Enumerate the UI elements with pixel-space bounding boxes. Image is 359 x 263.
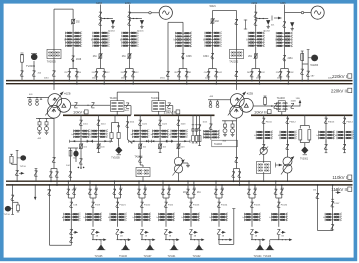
bus selector switches to 110kV buses I and II [187,181,189,198]
disconnector on left vertical [316,193,319,198]
bus selector switches to 220kV buses I and II [69,68,77,70]
disconnector [189,202,192,207]
disconnector below CT [287,140,289,150]
10kV station transformer bay with CT [210,115,212,140]
disconnector [283,22,286,27]
svg-text:F3013: F3013 [328,121,335,123]
line PT TV1105 dark triangle [100,240,102,243]
resistor element right PT bay [301,54,304,61]
disconnector on tertiary [274,103,277,108]
10kV PT bay on bus III with resistors [304,115,306,125]
CT bank on coupler vertical [66,31,82,47]
line with arrow stub [141,235,143,240]
incoming arrow at left of bay A306 [271,16,273,21]
CT bank [212,213,228,222]
CT bank [319,131,335,140]
disconnector C306 [181,53,184,59]
disconnector with arrow 110kV PT bay [15,170,18,175]
label 220kV II bus [331,88,352,93]
svg-text:1XB: 1XB [296,98,301,100]
disconnector on PT bay [20,71,23,76]
label 110kV I bus [332,175,351,180]
220kV line bay A264: feeder vertical [99,5,101,69]
junction circle on generator line 2 [301,11,303,13]
CT bank [159,213,175,222]
110kV bay loop right: verticals joined at bottom [317,185,319,231]
110kV PT bay bottom left [12,185,14,215]
bus selector switches to 220kV buses I and II [281,68,289,70]
disconnector at top [254,12,257,17]
220kV line bay A202: feeder vertical [255,5,257,69]
feeder end [98,151,100,153]
earthing switch pair beside T2 bay [245,20,247,30]
CT bank [248,31,264,47]
CT bank [256,131,272,140]
10kV feeder F3014 on bus III [344,115,346,142]
10kV PT group below T1 [36,118,54,120]
svg-text:TA1003: TA1003 [214,143,223,146]
ground of earthing transformer [183,162,188,164]
wire TA1001 to 10kV bus I [116,111,118,115]
svg-text:TV1103: TV1103 [263,256,272,258]
disconnector [158,120,161,125]
arrow mark beside disconnector [121,231,124,234]
disconnector near bus on T1 bay [52,71,55,76]
disconnector [254,20,257,25]
boxed CT TA2202 on T2 bay [230,49,244,58]
bus selector switches to 110kV buses I and II [138,181,140,198]
line side horizontal with earthing switches [129,18,142,20]
bus selector switches to 220kV buses I and II [97,68,105,70]
resistor on tertiary [264,95,267,97]
CT bank [280,131,296,140]
wire TA1003 to 10kV bus III [281,112,283,116]
arrow mark beside disconnector [255,231,258,234]
generator G2 [311,6,324,19]
disconnector [277,202,280,207]
svg-text:F1021: F1021 [120,205,127,207]
bay T2 220kV side: verticals bridged at top [212,11,214,69]
bus selector switches to 110kV buses I and II [162,181,164,198]
CT bank on right vertical of loop E [176,32,192,48]
svg-text:2201: 2201 [125,1,131,5]
breaker [178,141,180,151]
label 10kV II bus [164,110,180,115]
disconnector below CT [263,140,265,150]
boxed CT TA1003 feeding 10kV bus III [276,101,287,112]
line with arrow stub [117,235,119,240]
bus selector switches to 110kV buses I and II [67,181,69,198]
second disconnector on T1 10kV lead [91,103,94,108]
line PT TV1104 dark triangle [259,240,261,243]
svg-text:1023: 1023 [181,123,187,125]
disconnector on T1 10kV lead [74,103,77,108]
bus selector switches to 220kV buses I and II [179,68,187,70]
svg-text:TA1002: TA1002 [151,97,160,100]
svg-text:TA2202: TA2202 [229,59,238,63]
arms with earth switch arrows [87,140,110,142]
resistor element 110kV PT bay [11,154,13,156]
bus selector switches to 220kV buses I and II [209,68,217,70]
line PT TV1101 dark triangle [173,240,175,243]
line with arrow stub [278,235,280,240]
bus selector switches to 110kV buses I and II [114,181,116,198]
arrow mark beside disconnector [194,231,197,234]
diamond arrester TV100B [115,145,122,155]
label 10kV I bus [73,110,88,115]
220kV PT bay group at left [21,62,23,81]
svg-text:W021: W021 [210,5,217,8]
line PT TV1102 dark triangle [198,240,200,243]
label 10kV III bus [254,109,271,114]
disconnector below CT [277,229,280,234]
breaker [159,141,161,151]
svg-text:F3011: F3011 [266,121,273,123]
wire T2 low side tertiary [253,105,300,107]
CT bank [93,31,109,47]
arrow mark beside disconnector [169,231,172,234]
line PT TV1107 dark triangle [149,240,151,243]
220kV PT bay at right [301,51,303,81]
arms with earth switch arrows [149,140,172,142]
svg-text:#1ZB: #1ZB [64,91,70,95]
svg-text:F109: F109 [95,205,101,207]
disconnector on T1 110kV lead [52,157,55,162]
CT bank [337,131,353,140]
svg-text:TV1107: TV1107 [144,256,153,258]
three-winding transformer #1ZB [47,94,70,119]
svg-text:TV100B: TV100B [111,157,120,159]
CT bank [153,129,169,138]
arrow mark beside disconnector [222,231,225,234]
cable end cluster [78,167,80,169]
bus selector switches to 110kV buses I and II [248,181,250,198]
svg-text:F105: F105 [168,205,174,207]
arrow mark beside right loop vertical [337,191,340,194]
stub disconnector bay [35,169,37,182]
breaker [254,53,258,59]
disconnector below CT [250,229,253,234]
CT bank [135,213,151,222]
svg-text:A306: A306 [280,2,286,5]
disconnector right vertical [331,202,334,207]
line with arrow stub [251,235,253,240]
line PT TV1106 dark triangle [125,240,127,243]
10kV feeder F3013 on bus III [325,115,327,142]
disconnector below CT [189,229,192,234]
line with arrow stub [92,235,94,240]
CT bank on left vertical [205,31,221,47]
line side horizontal with earthing switches [256,18,269,20]
disconnector on T2 110kV lead [235,157,238,162]
10kV stub with resistor on bus II [199,115,201,145]
svg-text:1021: 1021 [142,123,148,125]
surge arrester [140,20,144,28]
resistor element bottom left PT bay [13,201,18,203]
svg-text:10kV III: 10kV III [254,109,268,114]
CT bank [171,129,187,138]
switch 1001 right of TA1001 [124,105,131,107]
svg-text:TV1106: TV1106 [119,256,128,258]
110kV PT column pair 2 [70,148,72,181]
disconnector [250,202,253,207]
disconnector [217,202,220,207]
disconnector [97,120,100,125]
junction circle on generator line [149,12,151,14]
feeder tail with disconnector [80,151,82,166]
arms with earth switch arrows [129,140,152,142]
line with arrow stub [190,235,192,240]
10kV feeder 1014: drop from bus [98,115,100,141]
bus selector switches T1 to 110kV buses [51,168,57,170]
boxed CT TA1001 feeding 10kV bus I [110,101,124,112]
svg-text:F1022: F1022 [144,205,151,207]
breaker 292 on coupler vertical [71,19,75,25]
10kV PT bay with resistor pair and diamond [114,115,116,122]
220kV bay loop E: two verticals bridged at top [167,22,169,80]
disconnector [127,20,130,25]
wire T1 mid side down to 110kV bus I [53,118,55,169]
label 110kV II bus [331,187,352,192]
svg-text:F1023: F1023 [193,205,200,207]
svg-text:TV110: TV110 [4,214,11,216]
disconnector right loop vertical [69,202,72,207]
line PT TV1103 dark triangle [270,239,279,241]
svg-text:1011: 1011 [83,123,88,125]
generator line from bay 2201 [129,12,159,14]
disconnector below CT [91,229,94,234]
CT bank [133,129,149,138]
svg-text:TV110: TV110 [20,166,27,168]
10kV feeder 1011: drop from bus [80,115,82,141]
wire boxed CT to 110kV bus I [142,177,144,182]
110kV transformer bay loop: verticals joined at bottom [49,185,51,245]
switch 1002 right of TA1002 [166,105,173,107]
generator G1 [159,6,172,19]
svg-text:TV1102: TV1102 [193,256,202,258]
disconnector [164,202,167,207]
svg-text:100B: 100B [291,101,297,103]
disconnector below CT [116,229,119,234]
110kV bus section disconnector 201 [193,181,195,185]
stub with down arrow [34,185,36,197]
svg-text:TA2206: TA2206 [310,64,319,67]
svg-text:F1026: F1026 [281,205,288,207]
10kV PT column pair on bus II [192,115,194,135]
label 220kV I bus [332,74,352,79]
10kV PT group below T2 [222,120,237,122]
disconnectors right PT bay [300,69,303,74]
boxed CT on 110kV bus tie [140,164,143,166]
equipment label box [212,140,238,147]
line with arrow stub [218,235,220,240]
breaker [127,53,131,59]
svg-text:2261: 2261 [288,58,294,60]
bus selector switches to 110kV buses I and II [275,181,277,198]
disconnector [116,202,119,207]
10kV PT group left of T2 [208,99,231,101]
svg-text:220kV II: 220kV II [331,88,347,93]
CT bank [245,213,261,222]
svg-text:F3012: F3012 [290,121,297,123]
resistor pair 10kV PT bay [110,133,113,139]
CT bank on right loop [325,213,341,222]
bridge wire TA1001 to TA1002 [116,92,118,101]
wire grounding transformer to 110kV bus I [287,173,289,181]
10kV feeder 1021: drop from bus [139,115,141,141]
10kV feeder F3011 on bus III [263,115,265,142]
arrow mark beside disconnector [145,231,148,234]
junction on tertiary [271,105,273,107]
grounding transformer on feeder F3012 two windings [287,151,289,158]
disconnector [99,20,102,25]
arrow mark beside disconnector [282,231,285,234]
CT bank [122,31,138,47]
CT bank [74,129,90,138]
bus selector switches to 220kV buses I and II [126,68,134,70]
arrow mark beside disconnector [96,231,99,234]
line with arrow stub [165,235,167,240]
breaker [80,141,82,151]
svg-text:TV1105: TV1105 [95,256,104,258]
busbar 220kV II [6,83,353,85]
disconnector on left loop vertical [48,190,51,195]
earthing transformer circle on feeder F3011 [263,147,265,151]
bus selector switches to 220kV buses I and II [252,68,260,70]
svg-text:10B: 10B [73,205,77,207]
busbar 110kV I [6,180,353,182]
10kV PT group left of T1 [27,97,49,99]
disconnector [140,202,143,207]
disconnector [79,120,82,125]
bus selector switches to 110kV buses I and II [215,181,217,198]
svg-text:1014: 1014 [101,123,107,125]
arrow and ground left of grounding transformer [279,164,282,167]
svg-text:F1025: F1025 [254,205,261,207]
bus selector switches T2 to 110kV buses [234,168,240,170]
svg-text:TA2005: TA2005 [47,59,56,63]
110kV PT bay at left [16,150,18,181]
second column right PT bay [307,50,309,81]
CT bank bay A306 [276,32,292,48]
breaker on left vertical [211,18,215,24]
tap changer arrow #1ZB [45,92,63,116]
bay T1 220kV side: left vertical with bridge [53,9,55,90]
bus selector switches to 110kV buses I and II [89,181,91,198]
svg-text:C306: C306 [186,56,192,58]
feeder end [159,151,161,153]
dark blob bottom left PT bay [11,208,13,210]
boxed CT to 110kV bus I [263,154,265,163]
disconnector 2261 [283,55,286,61]
disconnector at top [127,12,130,17]
disconnector below CT [344,140,346,150]
busbar 10kV II [134,114,215,116]
breaker [98,141,100,151]
disconnector on T2 bay right vertical [235,19,238,24]
svg-text:220kV I: 220kV I [332,74,347,79]
arms with earth switch arrows [70,140,93,142]
wire T2 mid side down to 110kV bus I [236,118,238,169]
svg-text:C304: C304 [203,56,209,58]
breaker [139,141,141,151]
surge arrester [111,20,115,28]
svg-text:1022: 1022 [162,123,168,125]
boxed CT TA1002 feeding 10kV bus II [152,101,166,112]
svg-text:TV2005: TV2005 [26,64,36,68]
disconnector below on loop bay [69,237,72,242]
10kV feeder 1023: drop from bus [178,115,180,141]
110kV PT dark blob [17,157,20,159]
busbar 10kV III [251,114,353,116]
disconnector [91,202,94,207]
busbar 220kV I [6,80,353,82]
surge arrester bay A306 [290,22,294,30]
svg-text:10kV I: 10kV I [73,110,84,115]
disconnector C304 [211,53,214,59]
disconnector below CT on loop bay [69,229,72,234]
wire T1 low side to 10kV [71,104,111,106]
earthing transformer below feeder 1023 [178,151,180,158]
disconnector 2046 [71,56,74,62]
10kV feeder 1022: drop from bus [159,115,161,141]
disconnector below CT [217,229,220,234]
CT bank [86,213,102,222]
svg-text:110kV I: 110kV I [332,175,347,180]
svg-text:F1024: F1024 [221,205,228,207]
near bus disconnector loop E left [166,71,169,76]
disconnector [177,120,180,125]
CT bank [184,213,200,222]
svg-text:A202: A202 [251,1,258,5]
spare feeder with hook [127,115,129,139]
busbar 110kV II [6,184,353,186]
arms with earth switch arrows [167,140,190,142]
220kV line bay A306 with generator [284,5,286,69]
switch 1003 [291,103,294,108]
boxed CT TA2005 on T1 bay [47,49,61,58]
svg-text:TV1101: TV1101 [168,256,177,258]
CT bank [110,213,126,222]
breaker [98,53,102,59]
disconnector near bus T2 bay [235,71,238,76]
busbar 10kV I [63,114,131,116]
CT bank on station transformer bay [203,130,219,139]
svg-text:TV1104: TV1104 [254,256,263,258]
resistor pair [299,130,302,140]
disconnector below CT [325,140,327,150]
svg-text:TA1003: TA1003 [277,97,286,100]
svg-text:#2ZB: #2ZB [247,91,253,95]
surge arrester [266,20,270,28]
disconnector [138,120,141,125]
disconnector below CT [140,229,143,234]
tap changer arrow #2ZB [228,92,246,116]
station service arrow end [299,102,301,107]
220kV PT (dark blob) [31,54,38,60]
wire feeder 1021 down to boxed CT [139,151,141,165]
CT bank [271,213,287,222]
CT bank [91,129,107,138]
10kV feeder F3012 on bus III [287,115,289,142]
three-winding transformer #2ZB [230,94,253,119]
disconnector at top [99,12,102,17]
line side horizontal with earthing switches [100,18,113,20]
arrester dark blob right PT bay [308,57,311,59]
generator line [285,12,311,14]
svg-text:A264: A264 [96,1,103,5]
disconnector below CT [164,229,167,234]
